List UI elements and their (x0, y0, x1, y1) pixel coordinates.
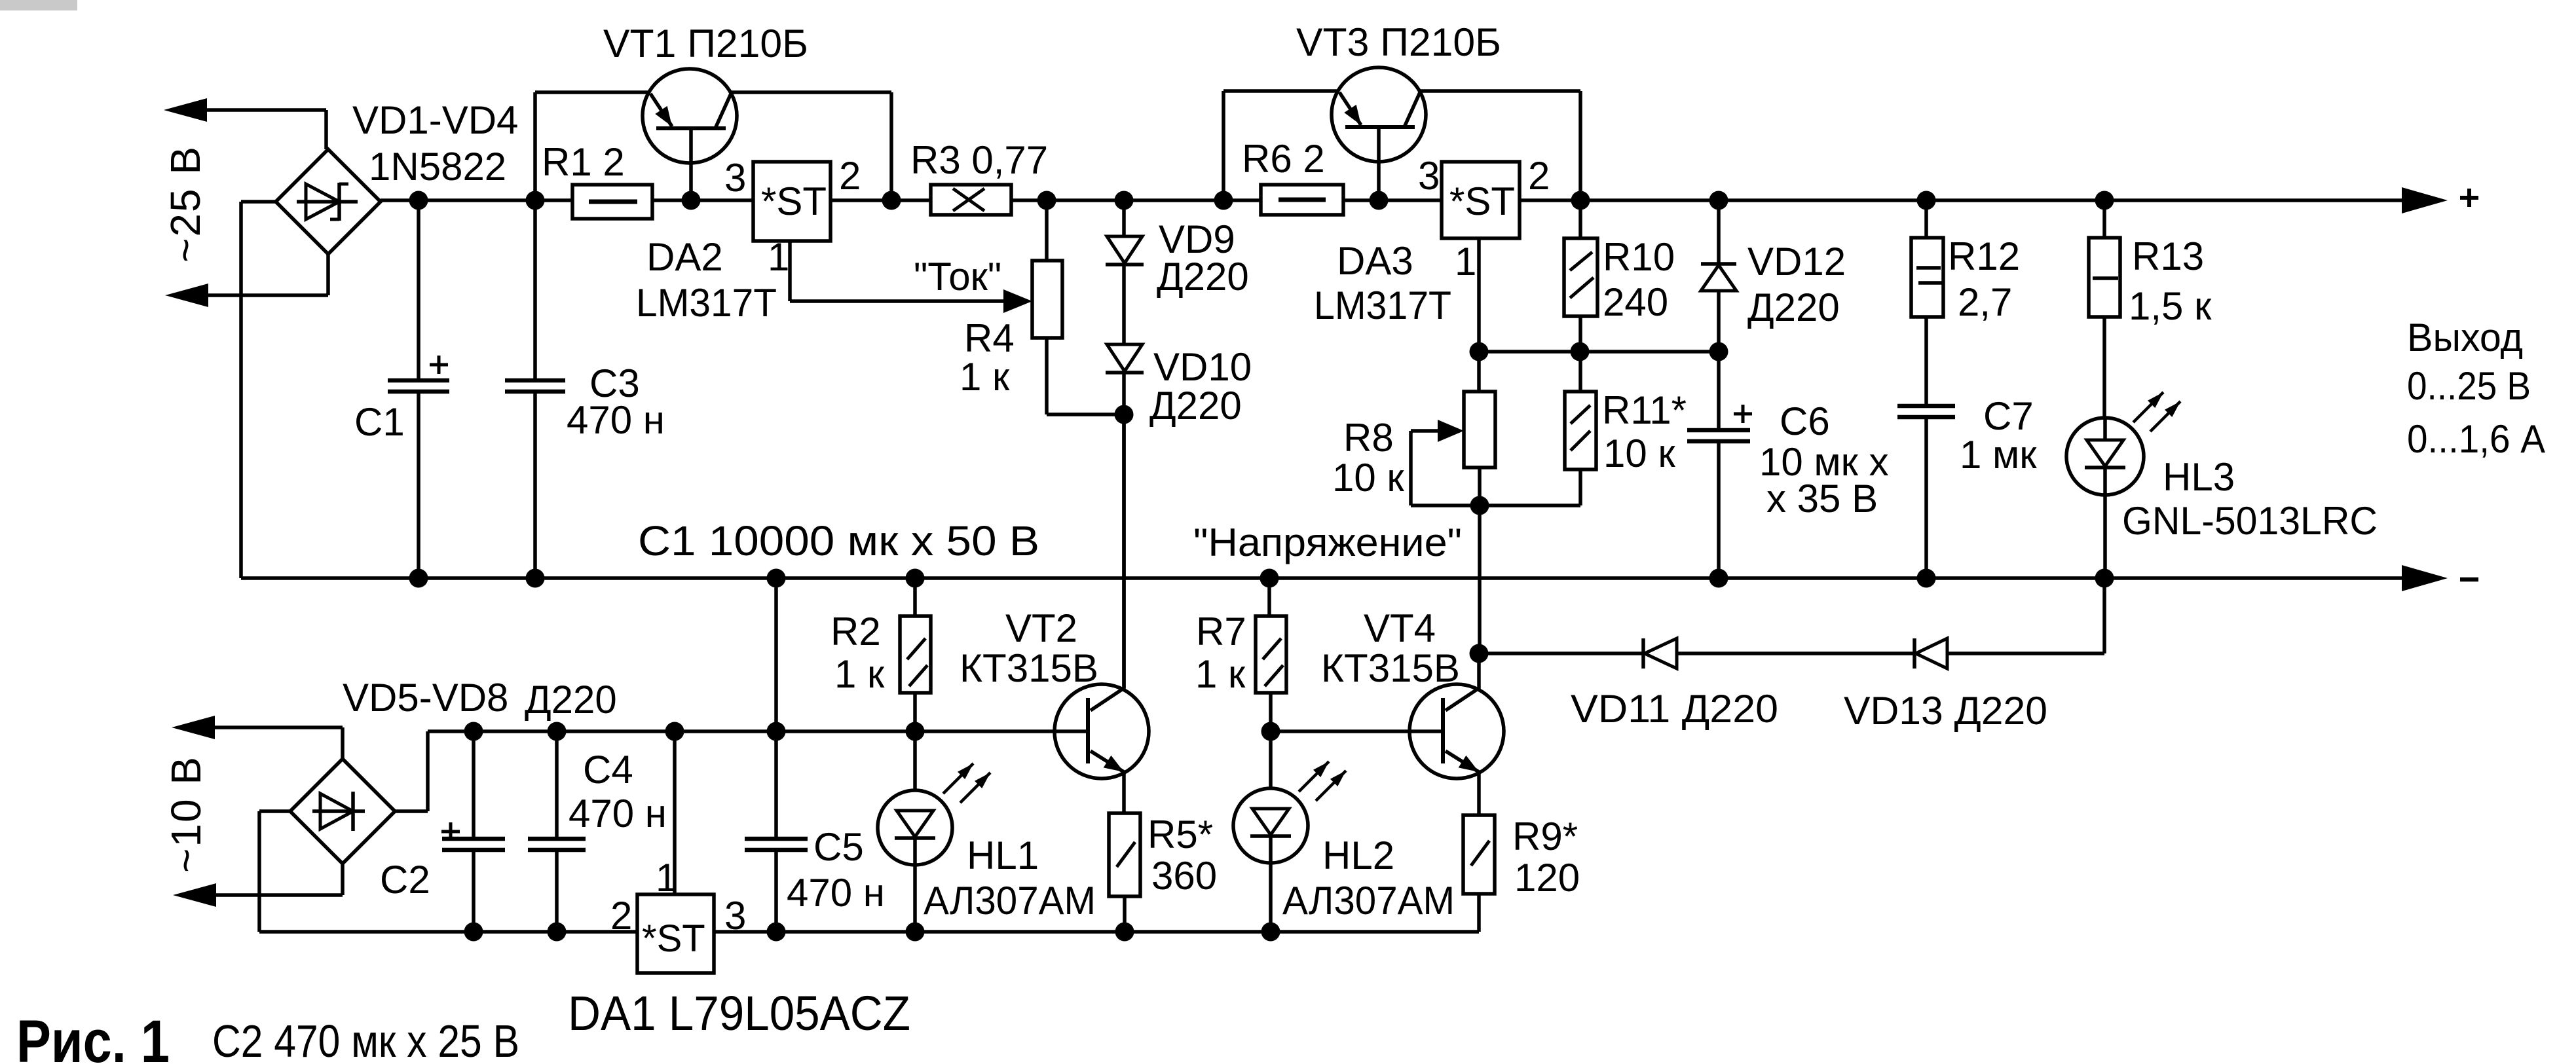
svg-text:1N5822: 1N5822 (369, 145, 506, 189)
svg-text:R9*: R9* (1512, 815, 1578, 858)
svg-text:R1 2: R1 2 (542, 140, 625, 184)
svg-text:10 к: 10 к (1603, 431, 1675, 475)
svg-text:АЛ307АМ: АЛ307АМ (924, 879, 1096, 923)
svg-text:360: 360 (1151, 854, 1217, 898)
svg-text:C4: C4 (583, 748, 633, 792)
svg-text:VT2: VT2 (1005, 606, 1077, 650)
svg-text:Д220: Д220 (1747, 285, 1840, 329)
svg-text:Д220: Д220 (525, 678, 617, 722)
svg-text:2: 2 (610, 894, 632, 938)
svg-text:HL2: HL2 (1322, 834, 1394, 877)
svg-text:VT4: VT4 (1364, 606, 1436, 650)
svg-text:VD12: VD12 (1747, 240, 1846, 284)
svg-text:R7: R7 (1196, 610, 1246, 653)
svg-text:R3 0,77: R3 0,77 (910, 138, 1048, 182)
svg-text:3: 3 (724, 156, 746, 200)
svg-text:КТ315В: КТ315В (1321, 646, 1460, 690)
svg-text:C7: C7 (1983, 394, 2034, 438)
svg-text:КТ315В: КТ315В (960, 646, 1098, 690)
svg-text:Рис. 1: Рис. 1 (16, 1008, 170, 1064)
svg-text:R8: R8 (1343, 416, 1394, 460)
svg-text:"Ток": "Ток" (914, 255, 1001, 299)
svg-text:~10 В: ~10 В (162, 756, 210, 873)
svg-text:C1: C1 (354, 400, 405, 444)
svg-text:1: 1 (1455, 240, 1476, 284)
svg-text:470 н: 470 н (567, 398, 665, 442)
svg-text:DA3: DA3 (1337, 239, 1413, 283)
svg-text:C6: C6 (1780, 399, 1830, 443)
svg-text:АЛ307АМ: АЛ307АМ (1282, 879, 1455, 923)
svg-text:DA2: DA2 (646, 235, 723, 279)
svg-text:1 к: 1 к (960, 355, 1010, 399)
svg-text:120: 120 (1514, 856, 1580, 900)
svg-text:1,5 к: 1,5 к (2129, 284, 2212, 328)
svg-text:1 к: 1 к (1195, 652, 1246, 696)
svg-text:R2: R2 (831, 610, 881, 653)
svg-text:VT3 П210Б: VT3 П210Б (1296, 20, 1501, 64)
svg-text:С1 10000 мк х 50 В: С1 10000 мк х 50 В (638, 517, 1039, 564)
svg-text:~25 В: ~25 В (162, 145, 209, 263)
svg-text:GNL-5013LRC: GNL-5013LRC (2122, 499, 2378, 543)
svg-text:2: 2 (1528, 154, 1550, 198)
svg-text:0...25 В: 0...25 В (2407, 364, 2531, 408)
svg-text:LM317T: LM317T (636, 281, 777, 325)
svg-text:C2: C2 (380, 858, 430, 902)
svg-text:Д220: Д220 (1157, 255, 1249, 299)
svg-text:240: 240 (1603, 280, 1668, 324)
svg-text:HL1: HL1 (967, 834, 1039, 877)
svg-text:3: 3 (724, 894, 746, 938)
svg-text:Выход: Выход (2407, 316, 2523, 359)
svg-text:HL3: HL3 (2163, 455, 2235, 499)
svg-text:DA1 L79L05ACZ: DA1 L79L05ACZ (568, 986, 910, 1040)
svg-text:R12: R12 (1948, 234, 2020, 278)
svg-text:0...1,6 А: 0...1,6 А (2407, 417, 2545, 461)
svg-text:470 н: 470 н (787, 871, 885, 915)
svg-text:C5: C5 (813, 825, 864, 869)
svg-text:С2 470 мк х 25 В: С2 470 мк х 25 В (212, 1016, 519, 1064)
svg-text:LM317Т: LM317Т (1314, 284, 1451, 327)
svg-text:R5*: R5* (1148, 813, 1213, 856)
svg-text:470 н: 470 н (569, 792, 667, 835)
svg-text:2: 2 (839, 154, 861, 198)
svg-text:VD13 Д220: VD13 Д220 (1844, 689, 2047, 733)
svg-text:VD10: VD10 (1153, 345, 1252, 389)
svg-text:"Напряжение": "Напряжение" (1193, 521, 1462, 564)
svg-text:1 мк: 1 мк (1960, 433, 2037, 477)
svg-text:R10: R10 (1603, 235, 1675, 279)
svg-text:R11*: R11* (1602, 388, 1687, 432)
svg-text:R4: R4 (964, 316, 1015, 360)
svg-text:1 к: 1 к (834, 652, 885, 696)
svg-text:3: 3 (1418, 154, 1440, 198)
svg-text:VD1-VD4: VD1-VD4 (352, 98, 518, 142)
svg-text:1: 1 (656, 856, 677, 900)
svg-text:10 к: 10 к (1332, 456, 1404, 500)
svg-text:*ST: *ST (1449, 179, 1515, 223)
svg-text:2,7: 2,7 (1958, 280, 2012, 324)
svg-text:VD5-VD8: VD5-VD8 (343, 676, 508, 720)
svg-text:R13: R13 (2132, 234, 2204, 278)
svg-text:R6 2: R6 2 (1242, 137, 1325, 181)
svg-text:1: 1 (768, 235, 789, 279)
svg-text:*ST: *ST (761, 179, 827, 223)
svg-text:х 35 В: х 35 В (1766, 477, 1878, 521)
svg-text:VD11 Д220: VD11 Д220 (1571, 687, 1778, 731)
svg-text:Д220: Д220 (1149, 384, 1242, 428)
svg-text:VT1 П210Б: VT1 П210Б (603, 22, 808, 65)
svg-text:*ST: *ST (642, 917, 705, 960)
